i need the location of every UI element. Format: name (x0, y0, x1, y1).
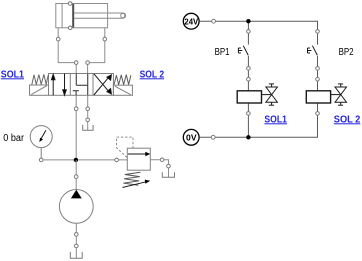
solenoid box left (30, 85, 49, 95)
junction bottom rail (246, 135, 250, 139)
solenoid valve icon 2 (hourglass) (335, 84, 347, 105)
pushbutton BP1 contact (238, 46, 248, 56)
svg-text:SOL 2: SOL 2 (140, 69, 165, 80)
0V supply node (183, 129, 199, 145)
pump flow triangle (71, 190, 82, 199)
connectors on T pipe (86, 107, 90, 111)
connector before relief valve (115, 158, 119, 162)
relief valve outlet to tank (150, 160, 168, 178)
connector at valve port B (86, 61, 90, 65)
connector at valve port A (74, 61, 78, 65)
wire cylinder rod-end to valve B (88, 28, 105, 74)
connector on 0V rail (211, 135, 215, 139)
relief valve adjust arrow (123, 182, 147, 188)
wire cylinder cap-end to valve A (58, 28, 76, 74)
svg-text:SOL1: SOL1 (264, 114, 287, 125)
valve centre position links (73, 74, 88, 96)
svg-text:SOL1: SOL1 (1, 69, 25, 80)
svg-text:BP1: BP1 (215, 47, 230, 58)
spring left (32, 74, 48, 84)
gauge connector (39, 158, 43, 162)
gauge needle (41, 130, 46, 138)
connector on cap-end pipe (56, 37, 60, 41)
cylinder rod (74, 13, 125, 18)
valve V1 body squares (49, 74, 114, 96)
spring right (114, 75, 131, 85)
pump suction pipe (75, 223, 77, 258)
svg-text:24V: 24V (184, 16, 198, 26)
top rail wire (200, 21, 318, 44)
link coil2 to valve icon (331, 94, 341, 96)
cylinder port top (68, 2, 72, 6)
solenoid box right (113, 85, 132, 95)
branch 2 wire mid/lower (317, 56, 319, 91)
connector on 24V rail (212, 19, 216, 23)
cylinder piston (72, 4, 74, 27)
svg-text:BP2: BP2 (339, 47, 354, 58)
branch 2 wire upper (317, 44, 319, 46)
pushbutton BP2 contact (308, 46, 318, 56)
svg-text:0V: 0V (186, 132, 197, 142)
pump P1 (59, 190, 93, 224)
gauge G1 (30, 126, 52, 158)
relief valve pilot line (dashed) (117, 137, 134, 157)
connectors branch 2 (316, 30, 320, 34)
tank under valve (83, 125, 93, 130)
link coil to valve icon (262, 94, 272, 96)
coil SOL2 (306, 91, 330, 103)
coil SOL1 (237, 91, 261, 103)
cylinder C1 body (56, 4, 108, 28)
branch 1 wire upper (247, 21, 249, 44)
valve left position arrows (51, 74, 66, 96)
pipe junction to pump (75, 160, 77, 190)
relief valve RV1 body (127, 148, 150, 170)
junction top rail (246, 19, 250, 23)
tank at relief outlet (162, 172, 174, 177)
pipe T valve to tank (87, 95, 89, 130)
connector on rod-end pipe (103, 37, 107, 41)
relief valve arrow (128, 153, 146, 155)
connector on P pipe (74, 107, 78, 111)
valve right position crossed arrows (94, 74, 112, 95)
solenoid valve icon 1 (hourglass) (266, 84, 278, 105)
bottom rail wire (200, 103, 318, 137)
pipe P valve to junction (75, 95, 77, 160)
main pressure line (43, 159, 127, 161)
junction node P (74, 158, 78, 162)
svg-text:0 bar: 0 bar (3, 133, 24, 144)
svg-text:SOL 2: SOL 2 (334, 114, 361, 125)
cylinder port bottom (68, 26, 72, 30)
24V supply node (183, 13, 199, 29)
connectors below pump (75, 233, 79, 237)
branch 1 wire mid/lower (247, 56, 249, 91)
relief valve spring (123, 172, 140, 185)
suction tank (70, 252, 82, 258)
connectors branch 1 (247, 30, 251, 34)
connector above pump (74, 175, 78, 179)
